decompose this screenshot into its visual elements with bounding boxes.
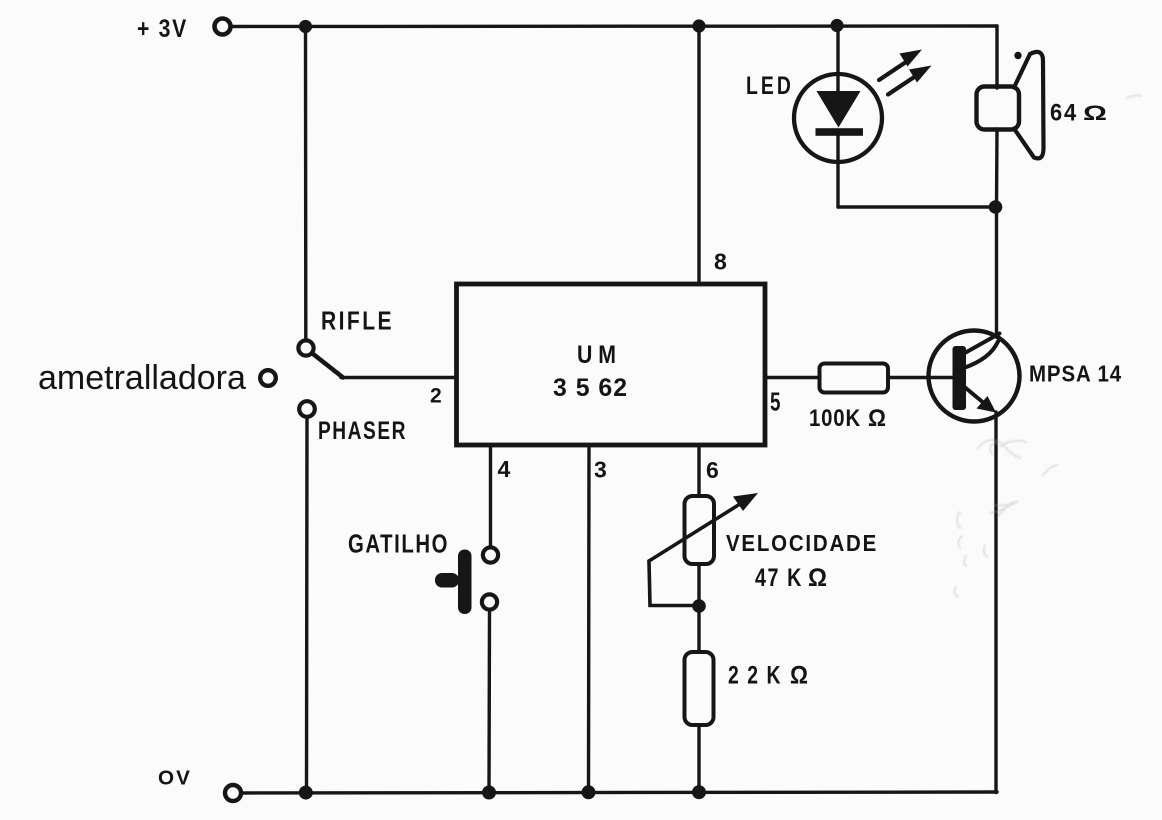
svg-text:+ 3V: + 3V: [137, 15, 188, 43]
svg-text:3: 3: [594, 457, 607, 483]
svg-text:PHASER: PHASER: [318, 417, 407, 445]
potentiometer P1 arrow: [649, 502, 744, 562]
wire pot to junction: [697, 564, 700, 652]
node junction LED rail: [830, 19, 843, 32]
LED D1 wire cathode: [836, 131, 839, 207]
wire top +3V rail: [231, 24, 997, 28]
svg-text:3 5 62: 3 5 62: [553, 374, 628, 402]
resistor R1 100K body: [820, 364, 889, 393]
speaker LS1 cone: [1014, 52, 1044, 159]
svg-text:MPSA 14: MPSA 14: [1029, 361, 1122, 387]
potentiometer P1 arrowhead: [733, 493, 758, 511]
pushbutton actuator stem: [435, 573, 459, 588]
svg-text:Ω: Ω: [808, 564, 827, 592]
pushbutton GATILHO bottom contact: [482, 594, 497, 609]
transistor Q1 base bar: [953, 346, 967, 410]
wire left vertical to switch: [304, 27, 308, 341]
LED light arrow 1: [879, 50, 922, 81]
svg-text:Ω: Ω: [1083, 102, 1107, 125]
wire pin 6: [697, 445, 700, 496]
wire pin 8: [697, 26, 700, 284]
node junction rail 22K: [692, 785, 706, 799]
wire button to 0V rail: [487, 610, 491, 793]
transistor Q1 emitter arrowhead: [977, 396, 997, 413]
wire speaker to node: [995, 129, 999, 207]
LED D1 cathode bar: [816, 128, 864, 136]
node junction rail pin3: [582, 785, 596, 799]
wire pin 3 down to rail: [587, 445, 591, 793]
svg-text:47 K: 47 K: [755, 564, 803, 592]
pushbutton GATILHO top contact: [483, 547, 498, 562]
speaker polarity dot: [1014, 52, 1021, 59]
LED D1 triangle: [817, 91, 861, 128]
wire bottom 0V rail: [241, 792, 997, 793]
resistor R2 22K body: [685, 652, 714, 725]
svg-text:U M: U M: [577, 341, 616, 369]
node junction pin8 rail: [692, 19, 705, 32]
svg-text:RIFLE: RIFLE: [321, 306, 394, 336]
node junction wiper: [692, 599, 706, 613]
LED light arrow 2: [888, 66, 932, 95]
node junction top-left: [299, 20, 312, 33]
switch SW1 blade: [313, 354, 344, 378]
wire pin 5 to resistor: [765, 376, 819, 379]
switch contact ametralladora: [260, 370, 276, 386]
svg-text:Ω: Ω: [868, 405, 886, 432]
svg-text:8: 8: [714, 249, 727, 275]
pencil smudge marks (scan artifacts): [954, 95, 1141, 597]
LED D1 circle: [794, 74, 882, 162]
transistor Q1 circle: [929, 331, 1020, 422]
node junction rail button: [482, 786, 496, 800]
svg-text:GATILHO: GATILHO: [348, 529, 449, 559]
wire PHASER down to 0V rail: [305, 417, 309, 793]
node junction LED/speaker/collector: [989, 200, 1003, 214]
op-amp U1 UM3562 IC box: [457, 284, 766, 445]
switch contact PHASER: [299, 401, 315, 417]
terminal +3V: [215, 19, 231, 35]
svg-text:6: 6: [706, 457, 719, 483]
svg-text:ametralladora: ametralladora: [38, 359, 246, 397]
svg-text:VELOCIDADE: VELOCIDADE: [726, 530, 878, 556]
wire collector up to node: [995, 207, 998, 336]
wire emitter down right side to 0V rail: [994, 412, 997, 793]
terminal 0V: [225, 785, 241, 801]
potentiometer P1 47K body: [685, 496, 715, 564]
transistor Q1 collector lines: [963, 334, 1000, 355]
wire LED to speaker node: [838, 205, 996, 208]
wire resistor to transistor base: [888, 376, 952, 379]
potentiometer wiper return wire: [649, 561, 698, 606]
wire switch to pin 2: [341, 376, 456, 379]
svg-text:OV: OV: [158, 768, 192, 790]
node junction rail phaser: [299, 786, 313, 800]
transistor Q1 emitter: [965, 387, 986, 404]
switch SW1 pole RIFLE contact: [298, 340, 313, 355]
wire pin 4: [489, 445, 492, 548]
svg-text:Ω: Ω: [790, 662, 808, 690]
svg-text:LED: LED: [746, 72, 794, 100]
svg-text:100K: 100K: [809, 405, 861, 432]
svg-text:64: 64: [1050, 100, 1078, 127]
svg-text:2: 2: [430, 385, 442, 408]
svg-text:2 2 K: 2 2 K: [728, 662, 782, 690]
speaker LS1 magnet box: [977, 87, 1020, 130]
svg-text:5: 5: [770, 387, 781, 417]
wire 22K to 0V rail: [697, 725, 700, 793]
pushbutton actuator bar: [458, 550, 472, 615]
svg-text:4: 4: [498, 456, 511, 482]
wire right drop from rail to speaker: [995, 26, 998, 88]
LED D1 wire anode: [836, 26, 839, 92]
